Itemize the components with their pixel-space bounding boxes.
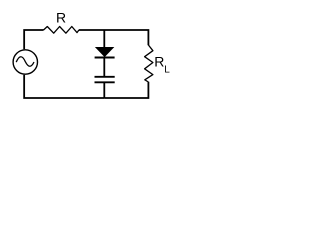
- diode: [95, 47, 115, 57]
- resistor RL: [145, 45, 153, 82]
- svg-text:R: R: [56, 10, 66, 26]
- AC source: [13, 50, 37, 74]
- capacitor: [95, 77, 115, 83]
- wire bottom-right corner segment: [104, 82, 148, 98]
- wire diode to capacitor: [103, 58, 105, 76]
- wire top rail right + corner: [79, 30, 149, 45]
- wire bottom-left corner segment: [24, 75, 104, 98]
- svg-text:R: R: [154, 54, 164, 70]
- svg-text:L: L: [164, 64, 170, 75]
- resistor R: [44, 27, 79, 34]
- wire top-left corner segment: [24, 30, 43, 49]
- wire middle branch bottom: [103, 83, 105, 98]
- wire middle branch top: [103, 30, 105, 48]
- label RL: [154, 54, 170, 76]
